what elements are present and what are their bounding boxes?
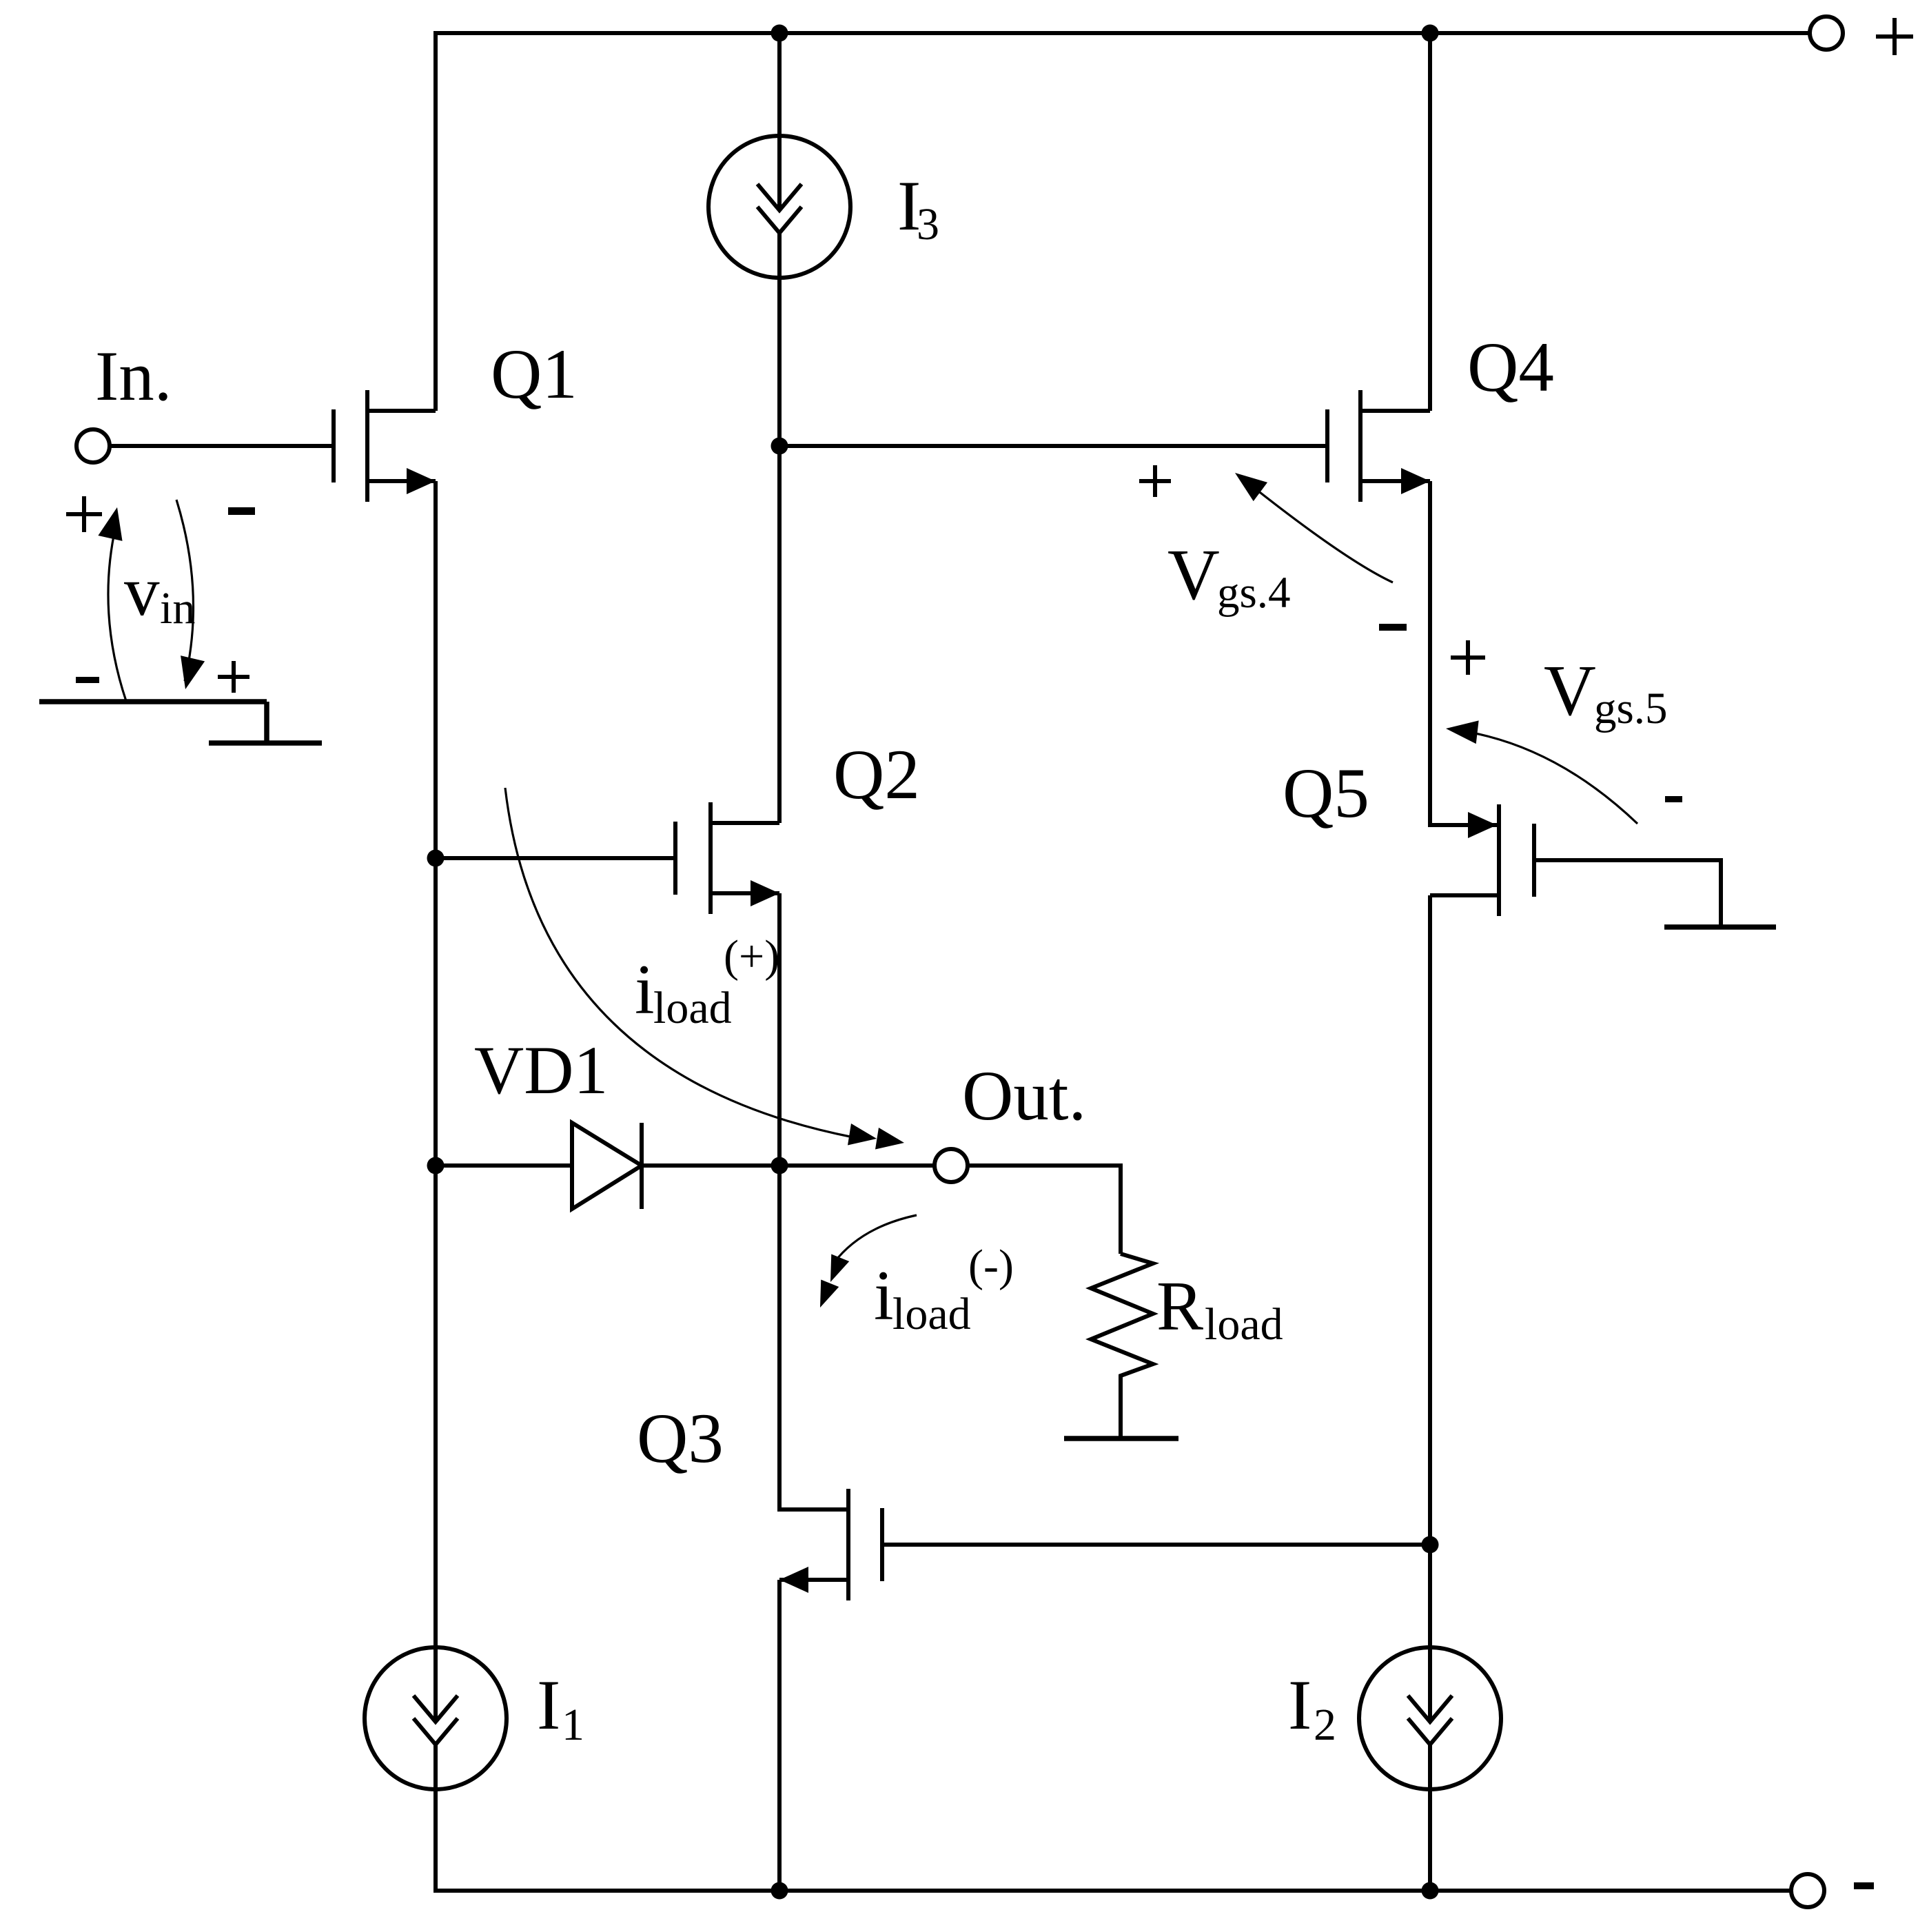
svg-text:gs.4: gs.4	[1217, 568, 1291, 618]
svg-text:2: 2	[1314, 1700, 1336, 1750]
svg-text:I: I	[1288, 1666, 1311, 1745]
svg-text:gs.5: gs.5	[1594, 684, 1668, 733]
svg-text:i: i	[874, 1257, 894, 1335]
svg-text:3: 3	[917, 199, 939, 250]
svg-text:R: R	[1156, 1268, 1203, 1345]
svg-text:V: V	[1167, 534, 1220, 615]
svg-text:Q5: Q5	[1283, 754, 1369, 833]
svg-text:(+): (+)	[724, 931, 779, 982]
svg-text:Q3: Q3	[637, 1399, 724, 1478]
svg-text:Q4: Q4	[1467, 328, 1554, 407]
svg-text:load: load	[1205, 1299, 1283, 1350]
svg-text:In.: In.	[95, 337, 172, 416]
svg-text:1: 1	[562, 1700, 584, 1750]
svg-text:load: load	[892, 1289, 971, 1339]
svg-text:V: V	[1544, 650, 1596, 731]
svg-text:load: load	[653, 983, 732, 1033]
svg-text:I: I	[537, 1666, 560, 1745]
svg-text:Out.: Out.	[962, 1057, 1086, 1135]
svg-text:in: in	[160, 583, 195, 633]
svg-text:Q1: Q1	[491, 335, 578, 414]
svg-text:(-): (-)	[968, 1241, 1014, 1291]
svg-text:i: i	[635, 950, 655, 1029]
svg-text:v: v	[124, 552, 160, 631]
svg-text:Q2: Q2	[833, 735, 920, 814]
svg-text:VD1: VD1	[474, 1032, 608, 1108]
